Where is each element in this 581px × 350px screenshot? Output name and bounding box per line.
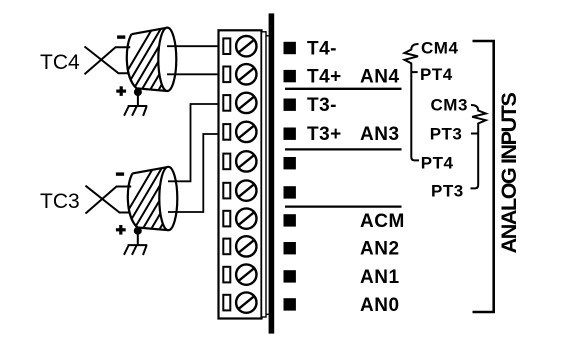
thermocouple junction X TC3 — [86, 186, 132, 214]
analog inputs bracket — [473, 41, 494, 312]
svg-text:TC3: TC3 — [40, 190, 80, 213]
terminal 9 wire slot — [223, 267, 230, 283]
terminal 5 screw head — [236, 151, 256, 171]
separator line above ACM — [285, 205, 402, 207]
pin square row 2 — [284, 70, 296, 82]
svg-text:AN4: AN4 — [360, 67, 400, 88]
wire TC4 minus lead to terminal 1 — [167, 45, 219, 47]
svg-text:TC4: TC4 — [40, 51, 80, 74]
TC4 shield drain node (dot) — [134, 88, 142, 96]
TC3 shielded cable — [114, 164, 199, 235]
pin square row 3 — [284, 99, 296, 111]
terminal 4 wire slot — [223, 124, 230, 140]
svg-text:CM4: CM4 — [421, 39, 458, 58]
pin square row 1 — [284, 42, 296, 54]
terminal 1 wire slot — [223, 38, 230, 54]
svg-text:PT4: PT4 — [420, 65, 453, 84]
pin square row 5 — [284, 157, 296, 169]
svg-text:T3-: T3- — [307, 95, 337, 116]
svg-text:AN0: AN0 — [360, 295, 400, 316]
terminal 6 wire slot — [223, 183, 230, 199]
RTD option bracket CM3/PT3 — [471, 105, 486, 188]
svg-text:PT3: PT3 — [430, 125, 463, 144]
terminal block body — [219, 30, 262, 318]
terminal 2 screw head — [236, 64, 256, 84]
TC3 ground stem wire — [137, 231, 139, 245]
separator line below AN3 — [285, 148, 402, 150]
wire TC3 plus lead to terminal 4 — [168, 134, 219, 212]
TC4 shielded cable — [113, 25, 198, 96]
svg-text:PT4: PT4 — [421, 153, 454, 172]
svg-text:ANALOG INPUTS: ANALOG INPUTS — [497, 93, 521, 254]
TC3 minus polarity — [116, 172, 124, 175]
svg-text:ACM: ACM — [360, 211, 405, 232]
bracket tick to PT4 — [411, 71, 417, 73]
TC3 plus polarity — [116, 225, 126, 235]
svg-text:PT3: PT3 — [431, 182, 464, 201]
terminal 9 screw head — [236, 264, 256, 284]
TC3 shield drain node (dot) — [134, 227, 142, 235]
module edge bar — [269, 13, 275, 333]
terminal 5 wire slot — [223, 154, 230, 170]
svg-text:T4-: T4- — [307, 39, 337, 60]
pin square row 7 — [284, 214, 296, 226]
svg-text:CM3: CM3 — [431, 96, 468, 115]
TC4 ground stem wire — [137, 92, 139, 106]
thermocouple junction X TC4 — [85, 47, 131, 75]
bracket tick to PT3 — [471, 133, 478, 135]
TC3 chassis ground — [124, 245, 147, 255]
terminal 8 screw head — [236, 236, 256, 256]
pin square row 4 — [284, 128, 296, 140]
TC4 plus polarity — [116, 86, 126, 96]
pin square row 10 — [284, 298, 296, 310]
block-to-module nub bottom — [266, 313, 270, 315]
terminal 7 wire slot — [223, 211, 230, 227]
svg-text:AN3: AN3 — [360, 124, 400, 145]
terminal 2 wire slot — [223, 67, 230, 83]
RTD option bracket CM4/PT4 — [405, 44, 420, 160]
terminal 6 screw head — [236, 180, 256, 200]
separator line below AN4 — [285, 88, 402, 90]
block-to-module nub top — [266, 35, 270, 37]
terminal 7 screw head — [236, 208, 256, 228]
terminal 3 screw head — [236, 93, 256, 113]
TC4 minus polarity — [117, 35, 125, 38]
svg-text:AN2: AN2 — [360, 239, 400, 260]
wire TC3 minus lead to terminal 3 — [168, 104, 219, 181]
terminal 10 screw head — [236, 292, 256, 312]
terminal 4 screw head — [236, 122, 256, 142]
pin square row 9 — [284, 270, 296, 282]
svg-text:T4+: T4+ — [307, 67, 342, 88]
terminal 3 wire slot — [223, 95, 230, 111]
TC4 chassis ground — [124, 106, 147, 116]
terminal 10 wire slot — [223, 295, 230, 311]
terminal block side panel — [262, 32, 267, 317]
svg-text:AN1: AN1 — [360, 267, 400, 288]
pin square row 8 — [284, 242, 296, 254]
wire TC4 plus lead to terminal 2 — [167, 73, 219, 75]
pin square row 6 — [284, 186, 296, 198]
svg-text:T3+: T3+ — [307, 124, 342, 145]
terminal 8 wire slot — [223, 239, 230, 255]
terminal 1 screw head — [236, 36, 256, 56]
